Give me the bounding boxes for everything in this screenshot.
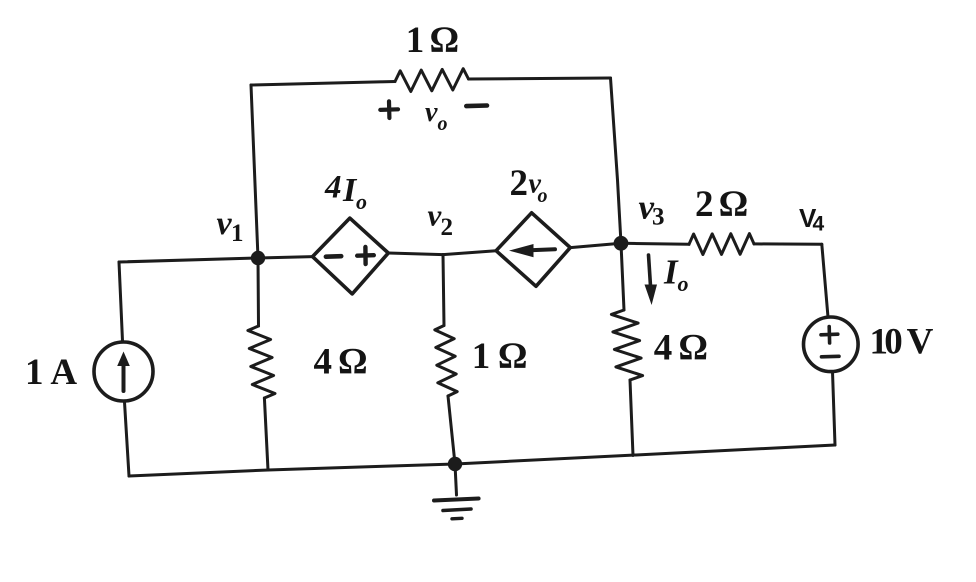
label vo (top resistor voltage) [425, 97, 448, 135]
ground node junction dot [448, 457, 462, 471]
svg-text:1: 1 [231, 220, 244, 247]
svg-text:A: A [50, 352, 77, 393]
wire: 2-ohm resistor to v4 corner [754, 242, 822, 245]
resistor 4 ohm (right, below v3) [611, 310, 642, 380]
wire: bottom rail [129, 445, 835, 476]
wire: 4Io source right vertex to v2 [388, 253, 443, 255]
wire: top-left vertical (top loop left side, v1 to top) [251, 85, 258, 258]
node v1 junction dot [251, 251, 265, 265]
label 4 ohm (left) [313, 342, 367, 383]
label 1 ohm (top resistor) [406, 20, 459, 61]
svg-text:2: 2 [441, 214, 454, 241]
svg-text:o: o [678, 271, 689, 296]
wire: 2vo source right vertex to v3 [570, 243, 621, 247]
dependent voltage source 4Io (diamond) [313, 218, 389, 294]
wire: 10V source to bottom-right corner [833, 372, 836, 446]
wire: v1 down to 4-ohm resistor [257, 258, 261, 326]
label node v4 (handwritten) [799, 203, 825, 236]
svg-text:4: 4 [813, 213, 825, 236]
wire: v3 down to 4-ohm resistor [621, 243, 624, 310]
wire: v1 to 4Io source left vertex [258, 257, 313, 258]
node v3 junction dot [614, 236, 629, 251]
label Io (current) [663, 253, 689, 297]
wire: v3 to 2-ohm resistor [621, 243, 689, 244]
label 10 V [869, 322, 933, 363]
label + (top polarity) [380, 101, 398, 118]
Io current arrow at v3 [645, 255, 658, 305]
wire: v4 corner down to 10V source [822, 244, 828, 317]
label node v2 [428, 198, 454, 242]
wire: right 4-ohm resistor down to bottom wire [630, 380, 633, 455]
label 4Io (dependent source value) [324, 170, 367, 215]
svg-text:1: 1 [406, 20, 425, 61]
voltage source 10V [804, 317, 859, 372]
svg-text:V: V [907, 322, 934, 363]
wire: top horizontal right of 1-ohm resistor [469, 78, 611, 79]
wire: top horizontal left of 1-ohm resistor [251, 82, 395, 86]
label - (top polarity) [466, 103, 487, 108]
svg-text:1: 1 [25, 352, 44, 393]
resistor 1 ohm (middle, below v2) [435, 326, 457, 397]
resistor 1 ohm (top) [395, 69, 469, 92]
label node v3 [639, 188, 665, 231]
svg-text:Ω: Ω [338, 342, 368, 383]
wire: v2 to 2vo source left vertex [443, 251, 496, 255]
wire: v2 down to 1-ohm resistor [443, 255, 444, 326]
svg-text:4: 4 [324, 170, 342, 206]
label 2vo (dependent source value) [510, 163, 548, 207]
svg-text:3: 3 [652, 204, 665, 231]
ground [434, 464, 479, 519]
svg-text:Ω: Ω [429, 20, 459, 61]
label 4 ohm (right) [654, 328, 708, 369]
svg-text:2: 2 [510, 163, 529, 204]
resistor 2 ohm [689, 234, 754, 255]
svg-text:4: 4 [313, 342, 332, 383]
svg-text:4: 4 [654, 328, 673, 369]
wire: left branch horizontal (v1 to left corner) [119, 258, 258, 262]
svg-text:o: o [438, 113, 448, 135]
wire: top-right vertical (top loop right side down to v3) [611, 78, 622, 243]
svg-text:0: 0 [884, 322, 903, 363]
svg-text:2: 2 [695, 184, 714, 225]
wire: below 1A source to bottom-left corner [125, 402, 130, 476]
svg-text:o: o [538, 185, 548, 207]
svg-text:Ω: Ω [678, 328, 708, 369]
label 1 A (current source) [25, 352, 77, 393]
label 1 ohm (middle) [472, 336, 528, 377]
wire: 4-ohm resistor down to bottom wire [264, 398, 268, 470]
wire: left vertical down to 1A source [119, 262, 123, 341]
svg-text:Ω: Ω [719, 184, 749, 225]
svg-text:Ω: Ω [498, 336, 528, 377]
svg-text:1: 1 [472, 336, 491, 377]
current source 1A [94, 342, 153, 401]
dependent current source 2vo (diamond) [496, 213, 570, 286]
label 2 ohm [695, 184, 748, 225]
label node v1 [217, 205, 244, 247]
svg-text:o: o [356, 189, 367, 214]
resistor 4 ohm (left, below v1) [248, 326, 275, 398]
svg-text:v: v [425, 97, 438, 128]
wire: 1-ohm resistor down to ground node [448, 396, 455, 464]
